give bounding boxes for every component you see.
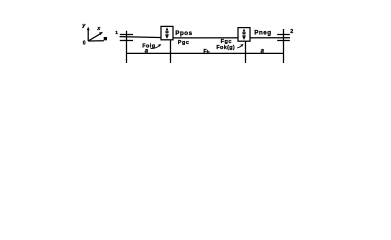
support wall vertical (283, 29, 285, 63)
svg-text:y: y (81, 23, 86, 29)
svg-text:1: 1 (115, 30, 118, 36)
support wall vertical (126, 31, 128, 63)
extension line from box A2 (245, 41, 247, 63)
svg-text:Pneg: Pneg (254, 30, 271, 37)
support tick upper (120, 34, 133, 36)
axis x (diagonal) (88, 34, 101, 41)
svg-text:Fok(g): Fok(g) (216, 45, 235, 51)
svg-text:Pgc: Pgc (178, 40, 190, 46)
axis z (horizontal, filled square tip) (88, 40, 104, 42)
actuator box A2 (right) (238, 28, 250, 42)
support tick lower (120, 40, 133, 42)
right support (277, 29, 290, 63)
extension line from box A1 (170, 40, 172, 63)
coordinate frame origin (87, 27, 107, 41)
axis y (87, 30, 89, 42)
svg-text:x: x (96, 26, 101, 32)
svg-text:2: 2 (290, 29, 293, 35)
actuator A1 double arrow (165, 27, 168, 38)
left support (120, 31, 133, 63)
leader arrow to A1 (151, 44, 162, 48)
beam (shaft line) (120, 37, 290, 38)
actuator A2 double arrow (242, 29, 245, 40)
dimension line (127, 52, 284, 54)
svg-text:Fb: Fb (203, 49, 209, 55)
support tick upper (277, 34, 290, 36)
svg-text:0: 0 (83, 40, 86, 46)
actuator box A1 (left) (161, 26, 173, 39)
leader arrow to A2 (237, 44, 243, 48)
support tick lower (277, 40, 290, 42)
svg-text:Ppos: Ppos (175, 30, 192, 37)
